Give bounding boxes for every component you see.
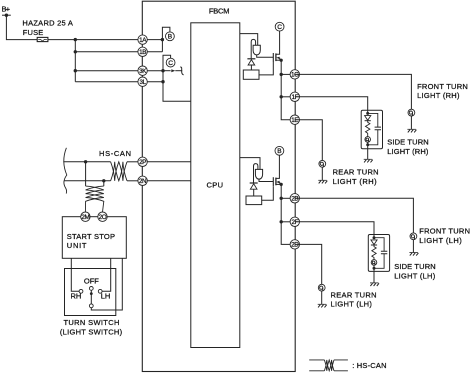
MOSFET Q2 body arrow xyxy=(276,181,280,185)
pin 3K xyxy=(138,66,147,75)
ground side turn RH xyxy=(364,159,373,162)
wire 1B up to net B dot xyxy=(161,40,163,52)
wire 2F to side turn LH xyxy=(295,222,374,238)
svg-text:UNIT: UNIT xyxy=(67,241,87,250)
junction dot 1F xyxy=(280,95,283,98)
net C tie: dot on 3K wire xyxy=(161,69,164,72)
svg-text:: HS-CAN: : HS-CAN xyxy=(352,361,386,370)
twisted pair to 2P/2N xyxy=(111,162,127,181)
svg-text:1A: 1A xyxy=(139,37,147,44)
svg-text:LIGHT (LH): LIGHT (LH) xyxy=(419,236,462,245)
pin 2D xyxy=(290,240,299,249)
svg-text:LIGHT (RH): LIGHT (RH) xyxy=(333,177,378,186)
junction dot module top xyxy=(366,112,369,115)
svg-text:HAZARD 25 A: HAZARD 25 A xyxy=(22,18,73,27)
wire pin 2P to CPU xyxy=(143,161,191,163)
svg-text:C: C xyxy=(168,60,173,67)
wire bulb to ground xyxy=(412,240,414,253)
vertical CAN drop wires xyxy=(86,162,104,186)
bulb side turn LH xyxy=(371,260,377,266)
wire bus to pin 3K xyxy=(75,70,142,72)
output bus upper MOSFET xyxy=(281,60,295,119)
wire driver output to gate xyxy=(259,179,273,181)
switch lever xyxy=(90,290,92,304)
svg-text:LIGHT (RH): LIGHT (RH) xyxy=(387,147,429,156)
CAN-L wire xyxy=(64,180,110,182)
junction dot CAN-L xyxy=(102,179,105,182)
LED diode side LH xyxy=(371,240,377,245)
pin 2M xyxy=(81,212,90,221)
label SIDE TURN LIGHT (RH) xyxy=(387,137,429,155)
MOSFET Q1 body arrow xyxy=(276,57,280,61)
junction dot 1G xyxy=(280,73,283,76)
bracket wire up to node C xyxy=(163,55,171,70)
wire pin 1B to net B tie xyxy=(143,51,163,53)
capacitor branch side LH xyxy=(374,238,387,269)
bulb side turn RH xyxy=(365,137,371,143)
ground front turn LH xyxy=(409,253,418,256)
wire pin 3K to net C dot xyxy=(143,70,163,72)
wire 1G to front turn RH xyxy=(295,74,412,109)
gate driver U2 xyxy=(255,169,262,179)
svg-text:LIGHT (LH): LIGHT (LH) xyxy=(394,272,436,281)
svg-text:2B: 2B xyxy=(291,196,298,203)
svg-text:FRONT TURN: FRONT TURN xyxy=(419,227,470,236)
MOSFET Q2 channel bar xyxy=(275,178,277,186)
wire CPU to lower driver xyxy=(240,158,260,170)
resistor zigzag side RH xyxy=(366,121,370,137)
wire CPU to upper driver xyxy=(240,34,258,46)
svg-text:3K: 3K xyxy=(139,68,147,75)
svg-text:HS-CAN: HS-CAN xyxy=(99,149,131,158)
CAN-H wire xyxy=(63,161,110,163)
pin 2B xyxy=(290,194,299,203)
wire bus to pin 3L xyxy=(75,81,142,83)
zener diode D1 xyxy=(247,59,255,70)
pin 1F xyxy=(290,92,299,101)
wire twist to pin 2N xyxy=(127,180,143,182)
wire fuse to pin 1A xyxy=(48,39,143,41)
junction dot source xyxy=(280,59,283,62)
svg-text:SIDE TURN: SIDE TURN xyxy=(387,137,429,146)
wire bulb to bottom junction xyxy=(373,265,375,268)
contact RH xyxy=(79,289,83,293)
label REAR TURN LIGHT (RH) xyxy=(333,168,379,186)
wire twist to pin 2P xyxy=(127,161,143,163)
B+ battery feed terminal xyxy=(2,5,11,17)
fuse HAZARD 25A xyxy=(37,37,48,41)
label TURN SWITCH (LIGHT SWITCH) xyxy=(60,318,123,337)
wire pin 3L to net C tie xyxy=(143,81,163,83)
MOSFET Q2 gate bar xyxy=(272,177,274,186)
bulb front turn RH xyxy=(408,109,415,116)
wire bulb to ground xyxy=(321,167,323,180)
side turn LH module box xyxy=(368,235,389,272)
resistor block R1 xyxy=(243,70,259,79)
pin 1G xyxy=(290,70,299,79)
wire to pin 2B xyxy=(281,197,295,199)
bulb rear turn RH xyxy=(319,160,326,167)
switch common contact xyxy=(89,304,93,308)
START STOP UNIT box xyxy=(62,217,126,259)
wire bulb to ground xyxy=(410,116,412,129)
ground rear turn RH xyxy=(318,180,327,183)
wire 1F to side turn RH xyxy=(295,97,368,114)
contact LH xyxy=(98,289,102,293)
output bus lower MOSFET xyxy=(281,184,295,244)
net B tie: dot on 1A wire xyxy=(161,38,164,41)
svg-text:1F: 1F xyxy=(291,94,298,101)
pin 2N xyxy=(138,176,147,185)
LED diode side RH xyxy=(365,116,371,121)
wire node B to MOSFET drain xyxy=(276,155,280,178)
zener diode D2 xyxy=(250,183,258,196)
MOSFET Q1 gate bar xyxy=(272,53,274,62)
label FRONT TURN LIGHT (RH) xyxy=(417,82,468,100)
wire module to ground xyxy=(373,268,375,283)
vertical twisted pair to start stop unit xyxy=(85,186,103,212)
junction dot source xyxy=(280,183,283,186)
HS-CAN harness break arcs xyxy=(64,148,67,194)
pin 1E xyxy=(290,115,299,124)
FBCM module box xyxy=(142,1,295,371)
svg-text:CPU: CPU xyxy=(207,180,224,189)
CPU box xyxy=(191,23,240,348)
inline connector arrow on 3K wire xyxy=(163,67,184,75)
node B circle at lower driver xyxy=(275,146,284,155)
resistor zigzag side LH xyxy=(372,245,376,260)
wire pin 1A to net B dot xyxy=(143,39,163,41)
node C circle xyxy=(166,58,175,67)
contact OFF xyxy=(89,287,93,291)
junction dot 2F xyxy=(280,220,283,223)
capacitor branch side RH xyxy=(368,113,381,144)
lever dot xyxy=(90,292,93,295)
side turn RH module box xyxy=(361,110,382,149)
MOSFET Q1 channel bar xyxy=(275,53,277,61)
MOSFET Q2 source stub xyxy=(276,183,281,185)
label SIDE TURN LIGHT (LH) xyxy=(394,262,436,280)
wire to pin 1F xyxy=(281,96,295,98)
bulb front turn LH xyxy=(410,233,417,240)
svg-text:FRONT TURN: FRONT TURN xyxy=(417,82,468,91)
svg-text:2F: 2F xyxy=(291,219,298,226)
svg-text:LIGHT (LH): LIGHT (LH) xyxy=(331,299,373,308)
label HAZARD 25 A FUSE xyxy=(22,18,73,37)
svg-text:OFF: OFF xyxy=(84,276,99,285)
wire pin 2N to CPU xyxy=(143,180,191,182)
svg-text:2N: 2N xyxy=(139,178,147,185)
legend twisted pair symbol xyxy=(309,360,348,371)
ground front turn RH xyxy=(407,129,416,132)
wire bus to pin 1B xyxy=(75,51,142,53)
svg-text:1B: 1B xyxy=(139,49,146,56)
node B circle xyxy=(166,32,175,41)
hook wire diode to driver input xyxy=(254,164,258,183)
pin 2F xyxy=(290,217,299,226)
pin 2P xyxy=(138,157,147,166)
wire to pin 1G xyxy=(281,73,295,75)
svg-text:LH: LH xyxy=(101,292,111,301)
wire node C to MOSFET drain xyxy=(276,31,280,54)
label START STOP UNIT xyxy=(67,232,115,250)
wire driver output to gate xyxy=(257,55,274,57)
wire module to ground xyxy=(367,145,369,160)
junction dot module top xyxy=(373,236,376,239)
junction dot bus/1B xyxy=(74,50,77,53)
wire to pin 2F xyxy=(281,221,295,223)
svg-text:2D: 2D xyxy=(291,242,299,249)
wire start stop to LH contact xyxy=(102,258,111,291)
wire R1 to gate xyxy=(259,62,273,75)
svg-text:1E: 1E xyxy=(291,117,298,124)
wire 1E to rear turn RH xyxy=(295,120,323,161)
pin 1B xyxy=(138,47,147,56)
wire switch common back to start stop unit xyxy=(91,258,122,310)
label FRONT TURN LIGHT (LH) xyxy=(419,227,470,246)
hook wire diode to driver input xyxy=(251,39,255,58)
wire bulb to ground xyxy=(321,291,323,304)
wire start stop to RH contact xyxy=(71,258,79,291)
wire 2D to rear turn LH xyxy=(295,244,322,284)
label REAR TURN LIGHT (LH) xyxy=(331,291,377,309)
MOSFET Q1 source stub xyxy=(276,59,281,61)
svg-text:B: B xyxy=(277,148,282,155)
svg-text:SIDE TURN: SIDE TURN xyxy=(394,262,436,271)
junction dot CAN-H xyxy=(84,160,87,163)
TURN SWITCH box xyxy=(65,269,116,316)
wire bulb to bottom junction xyxy=(367,142,369,145)
svg-text:FUSE: FUSE xyxy=(23,28,44,37)
wire 3K/3L net to CPU xyxy=(163,71,191,102)
svg-text:1G: 1G xyxy=(291,72,299,79)
svg-text:3L: 3L xyxy=(139,79,146,86)
svg-text:B: B xyxy=(168,34,173,41)
bracket wire up to node B xyxy=(162,27,170,39)
vertical feed bus xyxy=(74,40,76,82)
svg-text:C: C xyxy=(277,24,282,31)
wire from B+ down to fuse xyxy=(6,15,37,39)
junction dot module bottom xyxy=(366,143,369,146)
junction dot module bottom xyxy=(373,267,376,270)
ground side turn LH xyxy=(370,283,379,286)
svg-text:START STOP: START STOP xyxy=(67,232,115,241)
svg-text:TURN SWITCH: TURN SWITCH xyxy=(64,318,120,327)
dot on 3L wire xyxy=(161,80,164,83)
svg-text:REAR TURN: REAR TURN xyxy=(331,291,377,300)
junction dot bus/1A xyxy=(74,38,77,41)
ground rear turn LH xyxy=(318,304,327,307)
resistor block R2 xyxy=(246,196,262,205)
pin 3L xyxy=(138,77,147,86)
wire 2B to front turn LH xyxy=(295,198,414,233)
junction dot bus/3K xyxy=(74,69,77,72)
junction dot 2B xyxy=(280,197,283,200)
gate driver U1 xyxy=(253,45,260,55)
svg-text:(LIGHT SWITCH): (LIGHT SWITCH) xyxy=(60,328,123,337)
svg-text:LIGHT (RH): LIGHT (RH) xyxy=(417,91,460,100)
wire R2 to gate xyxy=(262,186,274,200)
node C circle at upper driver xyxy=(275,22,284,31)
pin 1A xyxy=(138,35,147,44)
svg-text:2P: 2P xyxy=(139,159,146,166)
svg-text:REAR TURN: REAR TURN xyxy=(333,168,379,177)
pin 2O xyxy=(98,212,107,221)
svg-text:B+: B+ xyxy=(2,5,11,14)
svg-text:2M: 2M xyxy=(81,214,89,221)
svg-text:2O: 2O xyxy=(99,214,107,221)
svg-text:FBCM: FBCM xyxy=(209,7,230,16)
bulb rear turn LH xyxy=(318,284,325,291)
